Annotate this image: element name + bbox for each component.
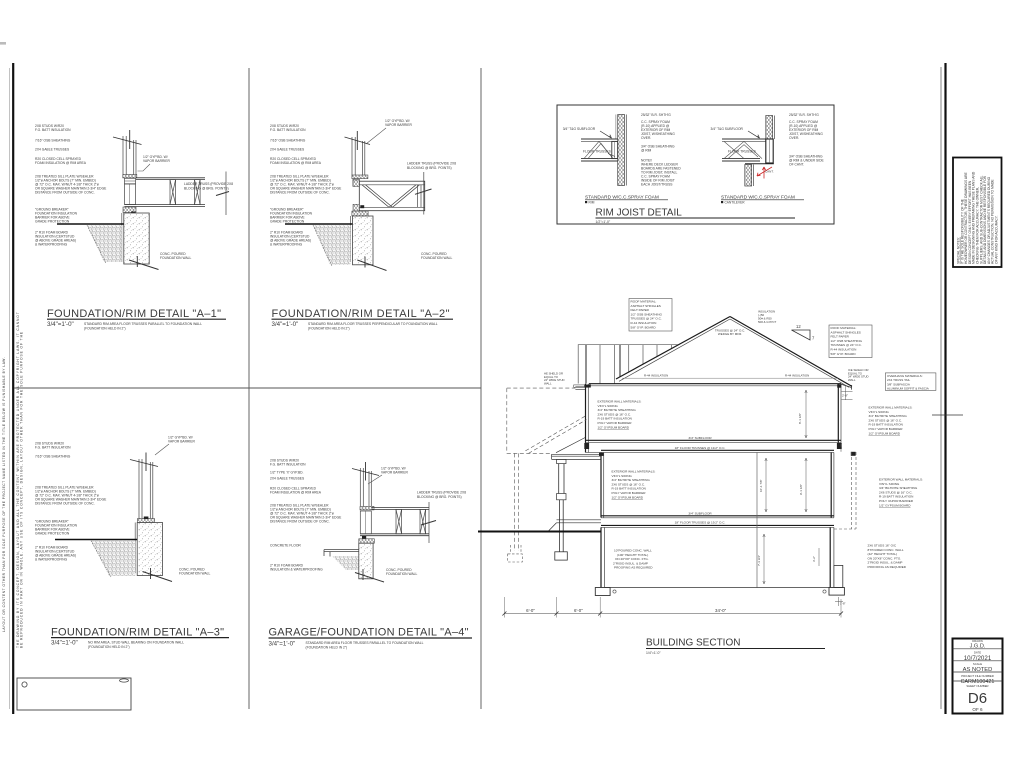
gable bottom trim [574, 385, 589, 387]
basement text left [613, 549, 653, 570]
revision ellipse mark [120, 679, 129, 682]
A4 truss posts [396, 509, 426, 533]
svg-text:@ RIM: @ RIM [641, 149, 652, 153]
A2 anchor bolt [357, 216, 363, 237]
A2 subfloor band [352, 175, 368, 179]
svg-text:6'-0": 6'-0" [526, 608, 535, 613]
svg-text:ALUMINUM SOFFIT & FASCIA: ALUMINUM SOFFIT & FASCIA [887, 387, 929, 391]
L truss webs [584, 141, 613, 158]
svg-text:9'-1 1/8": 9'-1 1/8" [799, 484, 803, 495]
dashed footing left [508, 545, 523, 562]
svg-text:FOAM INSULATION @ RIM AREA: FOAM INSULATION @ RIM AREA [270, 491, 322, 495]
L floor bottom chord [581, 158, 618, 160]
R subfloor [722, 138, 766, 140]
svg-text:LADDER TRUSS (PROVIDE 2X8: LADDER TRUSS (PROVIDE 2X8 [407, 162, 456, 166]
attic insulation line [622, 377, 838, 379]
porch roof section line [556, 438, 585, 453]
A1 foundation insul line [121, 213, 123, 262]
A2 grade line [285, 223, 353, 225]
svg-text:3/4" T&G SUBFLOOR: 3/4" T&G SUBFLOOR [563, 127, 596, 131]
A2 foundation break mark [357, 260, 386, 271]
svg-text:J.G.D.: J.G.D. [970, 644, 986, 650]
svg-text:LAYOUT OR CONTENT OTHER THAN F: LAYOUT OR CONTENT OTHER THAN FOR SOLE PU… [2, 357, 6, 632]
svg-text:18" FLOOR TRUSSES @ 19.2" O.C.: 18" FLOOR TRUSSES @ 19.2" O.C. [675, 446, 726, 450]
A3 anchor bolt [141, 523, 146, 547]
svg-text:F.G. BATT INSULATION: F.G. BATT INSULATION [35, 128, 71, 132]
svg-text:DISTANCE FROM OUTSIDE OF CONC.: DISTANCE FROM OUTSIDE OF CONC. [35, 191, 95, 195]
A3 gyp leader [155, 444, 169, 455]
L subfloor [581, 138, 618, 140]
right footing [829, 588, 844, 596]
A4 foundation wall [359, 543, 373, 579]
A1 gyp leader [138, 164, 151, 171]
A4 stud wall [360, 468, 371, 506]
A2 bolt dot [360, 205, 364, 208]
svg-text:OVER.: OVER. [789, 136, 799, 140]
svg-text:10'-1 7/8": 10'-1 7/8" [759, 479, 763, 492]
A4 sill 2 [359, 539, 375, 543]
first floor left wall [600, 453, 602, 518]
A4 wall break mark [352, 469, 379, 476]
basement text right [868, 544, 907, 570]
right dashed lines 1st floor [834, 444, 856, 529]
special notes frame [953, 158, 1002, 268]
svg-text:NO RIM AREA, STUD WALL BEARING: NO RIM AREA, STUD WALL BEARING ON FOUNDA… [88, 640, 184, 644]
left footing [595, 588, 610, 596]
A4 truss break mark [421, 521, 436, 526]
svg-text:FOUNDATION WALL: FOUNDATION WALL [179, 572, 210, 576]
A4 truss top chord [371, 507, 429, 509]
svg-text:3/4"=1'-0": 3/4"=1'-0" [47, 321, 74, 328]
A4 notes [270, 459, 466, 577]
svg-text:& WATERPROOFING: & WATERPROOFING [35, 243, 68, 247]
second floor wall text left [598, 400, 642, 430]
first floor wall text left [612, 470, 656, 500]
svg-text:R-44 INSULATION: R-44 INSULATION [785, 374, 809, 378]
A1 subfloor band [123, 175, 137, 178]
A3 wall break mark [130, 460, 158, 467]
svg-text:WALL: WALL [848, 378, 856, 382]
second floor wall text right (outside) [869, 406, 913, 436]
first floor right wall [830, 453, 832, 518]
A3 grade line [55, 539, 137, 541]
insulation note right of peak [758, 310, 777, 325]
svg-text:12: 12 [796, 324, 801, 329]
A1 note: studs [35, 124, 233, 260]
roof right slope [730, 317, 852, 387]
special notes rotated text [957, 171, 999, 264]
A3 notes [35, 436, 210, 576]
roof material box left [629, 299, 672, 332]
A4 bolt dot [362, 536, 366, 539]
svg-text:7/16" OSB SHEATHING: 7/16" OSB SHEATHING [35, 139, 71, 143]
A3 foundation insul line [134, 523, 136, 574]
A2 truss break mark [415, 189, 432, 194]
svg-text:SHEET NUMBER: SHEET NUMBER [966, 684, 988, 688]
A4 concrete slab [324, 550, 360, 557]
R cantilever rim joist [766, 139, 773, 163]
svg-text:2X4 GABLE TRUSSES: 2X4 GABLE TRUSSES [35, 148, 70, 152]
svg-text:3'-2": 3'-2" [812, 556, 816, 562]
A4 anchor bolt [360, 544, 365, 563]
svg-text:18" FLOOR TRUSSES @ 19.2" O.C.: 18" FLOOR TRUSSES @ 19.2" O.C. [675, 521, 726, 525]
R cant underside [745, 163, 774, 165]
porch column [557, 459, 566, 463]
svg-text:PROJECT FILE NUMBER: PROJECT FILE NUMBER [961, 674, 994, 678]
svg-text:5/8" GYP. BOARD: 5/8" GYP. BOARD [831, 352, 857, 356]
svg-text:WEDGE BY MFR.: WEDGE BY MFR. [718, 332, 742, 336]
A2 foundation insul line [350, 216, 352, 262]
svg-text:CONCRETE FLOOR: CONCRETE FLOOR [270, 544, 301, 548]
A1 anchor bolt [128, 213, 134, 236]
basement left wall [600, 527, 602, 587]
svg-text:FOUNDATION WALL: FOUNDATION WALL [421, 256, 452, 260]
svg-text:(FOUNDATION HELD IN 2"): (FOUNDATION HELD IN 2") [84, 327, 126, 331]
A1 earth boundary dotted [87, 225, 106, 263]
A1 sill plate detail [125, 178, 136, 184]
A1 rim blocking [125, 184, 136, 205]
svg-text:LADDER TRUSS (PROVIDE 2X8: LADDER TRUSS (PROVIDE 2X8 [417, 491, 466, 495]
svg-text:7/16" OSB SHEATHING: 7/16" OSB SHEATHING [270, 139, 306, 143]
A4 subfloor band [360, 507, 374, 510]
rim joist detail frame [557, 105, 834, 224]
porch beam [552, 454, 601, 459]
svg-text:DRAWN: DRAWN [972, 639, 982, 643]
svg-text:3/4" T&G SUBFLOOR: 3/4" T&G SUBFLOOR [711, 127, 744, 131]
edge tick top-left [0, 42, 6, 45]
svg-text:R-44 INSULATION: R-44 INSULATION [644, 374, 668, 378]
grade line [478, 531, 601, 533]
svg-text:GARAGE/FOUNDATION DETAIL "A–4": GARAGE/FOUNDATION DETAIL "A–4" [269, 627, 469, 639]
svg-text:STANDARD RIM AREA FLOOR TRUSSE: STANDARD RIM AREA FLOOR TRUSSES PERPENDI… [308, 322, 438, 326]
svg-text:INSULATION & WATERPROOFING: INSULATION & WATERPROOFING [270, 568, 323, 572]
svg-text:DISTANCE FROM OUTSIDE OF CONC.: DISTANCE FROM OUTSIDE OF CONC. [35, 502, 95, 506]
A2 stud wall [352, 137, 365, 175]
svg-text:(FOUNDATION HELD IN 2"): (FOUNDATION HELD IN 2") [308, 327, 350, 331]
A2 gyp leader [366, 128, 386, 144]
gable wall beyond (left) [578, 345, 678, 384]
A1 wall break mark [113, 137, 142, 145]
svg-text:2'-8": 2'-8" [842, 394, 848, 398]
svg-text:1/2" TYPE 'X' GYP.BD.: 1/2" TYPE 'X' GYP.BD. [270, 471, 304, 475]
R red cant marks [757, 167, 772, 179]
A2 earth boundary dotted [313, 225, 332, 266]
porch dashed roof beyond [525, 416, 586, 453]
svg-text:BUILDING SECTION: BUILDING SECTION [646, 638, 740, 649]
svg-text:RIM JOIST DETAIL: RIM JOIST DETAIL [596, 208, 683, 219]
he shield label garage [544, 372, 565, 386]
svg-text:BLOCKING @ BRG. POINTS): BLOCKING @ BRG. POINTS) [407, 166, 452, 170]
svg-text:SCALE: SCALE [973, 662, 982, 666]
A3 anchor bolt head [144, 517, 149, 520]
svg-text:FOUNDATION WALL: FOUNDATION WALL [386, 572, 417, 576]
svg-text:RIM: RIM [589, 200, 595, 204]
A2 truss diagonals [362, 185, 421, 208]
gutter step near wall [575, 387, 585, 390]
svg-text:FOUNDATION/RIM DETAIL "A–3": FOUNDATION/RIM DETAIL "A–3" [51, 626, 224, 638]
svg-text:7'-3 3/4": 7'-3 3/4" [757, 555, 761, 566]
second floor left wall [585, 384, 587, 453]
svg-text:CANT.: CANT. [765, 170, 774, 174]
revision box [17, 678, 131, 710]
svg-text:WALL: WALL [544, 381, 552, 385]
svg-text:FOUNDATION/RIM DETAIL "A–2": FOUNDATION/RIM DETAIL "A–2" [272, 308, 450, 320]
first floor height dims [765, 458, 767, 512]
A1 foundation wall [124, 213, 149, 264]
ceiling double line [589, 383, 841, 385]
A2 truss inner chords [359, 184, 424, 186]
A2 truss band outline [359, 181, 424, 211]
svg-text:STANDARD RIM AREA FLOOR TRUSSE: STANDARD RIM AREA FLOOR TRUSSES PARALLEL… [84, 322, 202, 326]
svg-text:PROOFING AS REQUIRED: PROOFING AS REQUIRED [868, 565, 907, 569]
svg-text:CANTILEVER: CANTILEVER [725, 200, 746, 204]
first floor wall text right (outside) [879, 478, 923, 508]
svg-text:PROOFING AS REQUIRED: PROOFING AS REQUIRED [614, 566, 653, 570]
A1 stud wall [123, 136, 136, 176]
A2 sill plate [353, 179, 359, 186]
svg-text:OF ANY KIND FOR ACCURACY.: OF ANY KIND FOR ACCURACY. [995, 215, 999, 264]
ice shield label right [848, 368, 869, 382]
svg-text:DISTANCE FROM OUTSIDE OF CONC.: DISTANCE FROM OUTSIDE OF CONC. [270, 520, 330, 524]
dim ticks [502, 612, 843, 616]
svg-text:VAPOR BARRIER: VAPOR BARRIER [385, 123, 412, 127]
A3 foundation break mark [143, 572, 173, 582]
svg-text:5/8" GYP. BOARD: 5/8" GYP. BOARD [631, 325, 657, 329]
R truss webs [724, 141, 762, 158]
A1 sill 2 [123, 207, 136, 213]
A3 stud wall [139, 459, 153, 521]
A1 earth hatch [87, 225, 122, 262]
roof material box right [829, 325, 872, 358]
vertical divider x=249 [248, 68, 250, 709]
svg-text:FOAM INSULATION @ RIM AREA: FOAM INSULATION @ RIM AREA [270, 161, 322, 165]
R wall below inset [745, 165, 752, 187]
A2 foundation wall [353, 216, 374, 265]
A4 foundation break mark [355, 573, 384, 583]
porch floor lines [548, 520, 601, 532]
svg-text:25/32" B.R. SHTH'G: 25/32" B.R. SHTH'G [641, 113, 671, 117]
basement right wall [829, 527, 831, 587]
svg-text:10/7/2021: 10/7/2021 [964, 655, 992, 662]
svg-text:EACH JOIST/TRUSS: EACH JOIST/TRUSS [641, 183, 673, 187]
L label trusses arrow [608, 154, 615, 157]
svg-text:BLOCKING @ BRG. POINTS): BLOCKING @ BRG. POINTS) [184, 187, 229, 191]
svg-text:FOUNDATION/RIM DETAIL "A–1": FOUNDATION/RIM DETAIL "A–1" [47, 308, 221, 320]
svg-text:& WATERPROOFING: & WATERPROOFING [270, 243, 303, 247]
svg-text:FLOOR TRUSSES: FLOOR TRUSSES [728, 149, 757, 153]
A4 gyp leader [368, 475, 382, 484]
A4 truss bottom chord [360, 533, 429, 535]
svg-text:AS NOTED: AS NOTED [963, 667, 993, 673]
A1 truss top chord [136, 177, 205, 179]
svg-text:GRADE PROTECTION: GRADE PROTECTION [35, 220, 70, 224]
2'-8 dim right eave [842, 385, 853, 400]
svg-text:1/2" GYPSUM BOARD: 1/2" GYPSUM BOARD [879, 503, 911, 507]
revision circle [22, 682, 27, 687]
right thick border [944, 63, 946, 714]
overhang materials box right [885, 373, 936, 391]
row dividers [953, 648, 1003, 650]
A2 wall blocking hatches [353, 180, 359, 187]
svg-text:2X4 GABLE TRUSSES: 2X4 GABLE TRUSSES [270, 477, 305, 481]
left thick border [12, 63, 14, 714]
horizontal divider y=388 [14, 387, 481, 389]
second floor height dim [805, 390, 807, 438]
L label subfloor arrow [600, 131, 612, 138]
svg-text:3/4" SUBFLOOR: 3/4" SUBFLOOR [688, 436, 712, 440]
svg-text:7/16" OSB SHEATHING: 7/16" OSB SHEATHING [35, 455, 71, 459]
porch footing [555, 552, 568, 560]
A2 earth hatch [313, 225, 351, 265]
R label subfloor arrow [748, 131, 760, 138]
pitch triangle [792, 330, 811, 340]
svg-text:6'-0": 6'-0" [574, 608, 583, 613]
svg-text:D6: D6 [968, 690, 987, 707]
right footing dim [835, 597, 843, 606]
dimension line [504, 613, 841, 615]
A2 note: studs [270, 119, 456, 260]
right thin border [940, 67, 942, 709]
svg-text:BE REPRODUCED IN PART OR IN WH: BE REPRODUCED IN PART OR IN WHOLE. ANY U… [20, 331, 24, 648]
second floor subfloor lines [586, 439, 842, 441]
dim extension lines [504, 597, 841, 618]
svg-text:1/2"=1'-0": 1/2"=1'-0" [596, 220, 611, 224]
svg-text:25/32" B.R. SHTH'G: 25/32" B.R. SHTH'G [789, 113, 819, 117]
roof left slope [616, 317, 730, 380]
A3 foundation wall [137, 523, 162, 576]
porch post below [558, 500, 560, 552]
svg-text:1/2" GYPSUM BOARD: 1/2" GYPSUM BOARD [869, 431, 901, 435]
svg-text:1/4"=1'-0": 1/4"=1'-0" [646, 651, 661, 655]
A1 foundation break mark [129, 260, 159, 270]
svg-text:OVER.: OVER. [641, 136, 651, 140]
svg-text:STANDARD RIM AREA FLOOR TRUSSE: STANDARD RIM AREA FLOOR TRUSSES PARALLEL… [306, 641, 424, 645]
R floor bottom chord [722, 158, 760, 160]
L wall sheathing lines [625, 115, 627, 186]
svg-text:GRADE PROTECTION: GRADE PROTECTION [270, 220, 305, 224]
right wall ledge [834, 565, 843, 587]
svg-text:VAPOR BARRIER: VAPOR BARRIER [168, 440, 195, 444]
basement floor [605, 587, 831, 589]
A4 slab earth hatch [332, 556, 359, 570]
svg-text:(FOUNDATION HELD IN 2"): (FOUNDATION HELD IN 2") [88, 645, 130, 649]
svg-text:3/4"=1'-0": 3/4"=1'-0" [269, 640, 296, 647]
svg-text:OF CANT.: OF CANT. [789, 163, 804, 167]
L rim joist [612, 141, 618, 158]
svg-text:2X4 GABLE TRUSSES: 2X4 GABLE TRUSSES [270, 148, 305, 152]
A3 earth hatch [91, 541, 135, 576]
A1 truss break mark [216, 192, 229, 196]
left faint border [9, 68, 11, 709]
svg-text:GRADE PROTECTION: GRADE PROTECTION [35, 532, 70, 536]
R wall sheathing line [773, 116, 775, 140]
svg-text:3/4" SUBFLOOR: 3/4" SUBFLOOR [688, 511, 712, 515]
svg-text:(FOUNDATION HELD IN 2"): (FOUNDATION HELD IN 2") [306, 646, 348, 650]
svg-text:1/2" GYPSUM BOARD: 1/2" GYPSUM BOARD [612, 495, 644, 499]
fold mark right [932, 414, 963, 416]
interior bearing wall [756, 453, 758, 588]
R notes column [789, 113, 824, 167]
svg-text:3/4"=1'-0": 3/4"=1'-0" [272, 321, 299, 328]
right eave soffit [841, 384, 852, 390]
second floor right wall [837, 384, 839, 444]
svg-text:OF 6: OF 6 [972, 707, 983, 712]
svg-text:3/4"=1'-0": 3/4"=1'-0" [51, 640, 78, 647]
svg-text:F.G. BATT INSULATION: F.G. BATT INSULATION [270, 128, 306, 132]
svg-text:8'-1 1/8": 8'-1 1/8" [798, 413, 802, 424]
L notes column [641, 113, 681, 187]
svg-text:VAPOR BARRIER: VAPOR BARRIER [381, 471, 408, 475]
R wall batt strip [766, 116, 773, 140]
svg-text:& WATERPROOFING: & WATERPROOFING [35, 558, 68, 562]
svg-text:DISTANCE FROM OUTSIDE OF CONC.: DISTANCE FROM OUTSIDE OF CONC. [270, 191, 330, 195]
A3 sill band [138, 519, 155, 523]
svg-text:BLOCKING @ BRG. POINTS): BLOCKING @ BRG. POINTS) [417, 495, 462, 499]
second floor truss bottom lines [601, 449, 834, 451]
rim blocks 2nd floor [584, 443, 589, 449]
svg-text:F.G. BATT INSULATION: F.G. BATT INSULATION [35, 446, 71, 450]
A2 sill 2 [352, 211, 368, 216]
svg-text:1/2" GYPSUM BOARD: 1/2" GYPSUM BOARD [598, 425, 630, 429]
basement height dims [763, 534, 765, 584]
A4 rim blocking [360, 511, 371, 534]
A1 truss bottom chord [125, 204, 206, 206]
first floor subfloor lines [601, 515, 834, 517]
A2 wall break mark [345, 137, 371, 145]
A1 truss posts [170, 180, 200, 205]
title block frame [953, 639, 1003, 714]
A1 grade line [57, 223, 124, 225]
svg-text:FOUNDATION WALL: FOUNDATION WALL [160, 256, 191, 260]
svg-text:34'-0": 34'-0" [715, 608, 727, 613]
svg-text:50# & GYPCT: 50# & GYPCT [758, 320, 777, 324]
svg-text:FOAM INSULATION @ RIM AREA: FOAM INSULATION @ RIM AREA [35, 161, 87, 165]
svg-text:F.G. BATT INSULATION: F.G. BATT INSULATION [270, 463, 306, 467]
vertical divider x=481 [480, 68, 482, 709]
A3 earth boundary dotted [91, 541, 111, 577]
L wall batt strip [618, 115, 625, 186]
first floor truss bottom lines [601, 524, 834, 526]
svg-text:FLOOR TRUSSES: FLOOR TRUSSES [583, 149, 612, 153]
svg-text:VAPOR BARRIER: VAPOR BARRIER [143, 159, 170, 163]
porch dashed outline [507, 388, 576, 551]
